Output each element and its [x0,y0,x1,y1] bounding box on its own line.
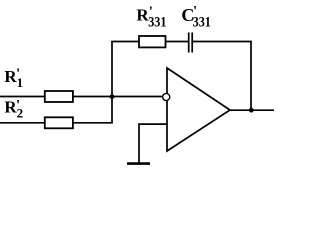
label C'331 [181,3,211,30]
wire output [229,109,274,111]
wire ground vertical [138,123,140,163]
wire vertical joining node A [111,41,113,124]
wire input 2 horizontal [0,122,113,124]
resistor R2 [45,117,73,128]
svg-text:2: 2 [17,106,24,121]
output node junction dot [249,108,254,113]
svg-text:1: 1 [17,75,24,90]
resistor R1 [45,91,73,102]
svg-text:331: 331 [193,15,211,31]
label R'2 [4,97,23,120]
capacitor C331 right plate [191,33,193,53]
op-amp U1 triangle [167,68,230,151]
ground [127,162,150,165]
node A junction dot [110,94,115,99]
resistor R331 [139,36,166,47]
wire non-inverting input [139,123,168,125]
svg-text:331: 331 [148,15,166,31]
label R'1 [4,66,23,90]
op-amp inverting input bubble [163,93,170,100]
label R'331 [136,4,166,30]
capacitor C331 left plate [188,33,190,53]
wire feedback top horizontal right [192,41,252,43]
wire feedback right vertical [250,41,252,110]
wire input 1 horizontal [0,96,163,98]
wire feedback top horizontal left [111,41,188,43]
